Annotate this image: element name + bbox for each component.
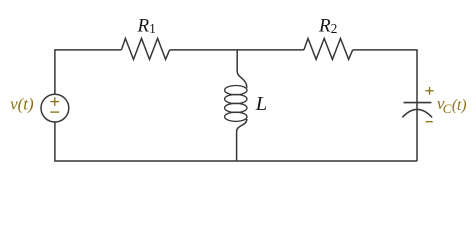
svg-text:(t): (t) — [452, 97, 467, 114]
svg-text:C: C — [443, 101, 452, 116]
svg-text:R2: R2 — [318, 16, 337, 37]
svg-text:L: L — [255, 93, 267, 115]
svg-text:v(t): v(t) — [10, 95, 34, 114]
svg-text:R1: R1 — [137, 16, 156, 37]
